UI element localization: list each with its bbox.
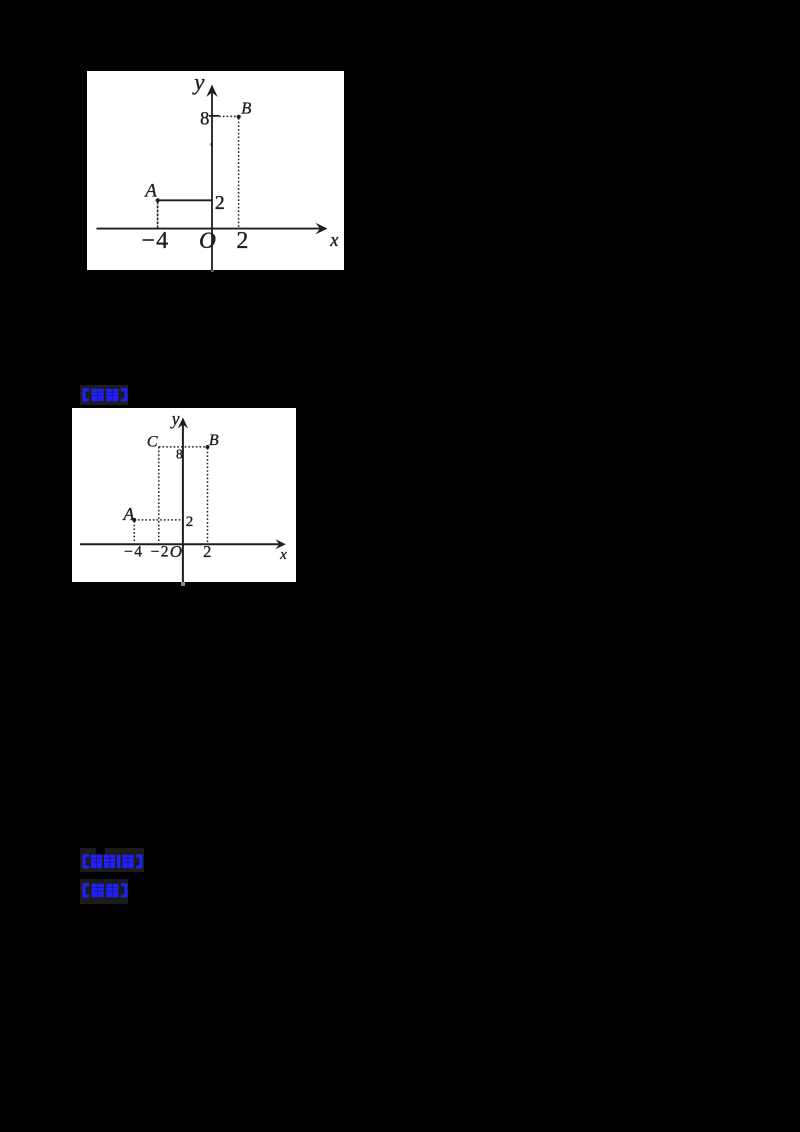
point A [156, 198, 160, 202]
svg-text:2: 2 [186, 514, 194, 530]
grey axis stub below panel 1 [211, 270, 214, 272]
blue label 2 text 【小问1详解】 [82, 854, 143, 869]
vertical dotted line A to x-axis [133, 521, 135, 543]
x-axis [80, 543, 279, 545]
vertical dotted line from B to x-axis [238, 118, 240, 228]
svg-text:8: 8 [200, 109, 209, 129]
svg-text:O: O [199, 228, 216, 254]
vertical dotted line C to x-axis [158, 447, 160, 544]
y-axis [211, 89, 213, 270]
point B2 [206, 445, 210, 449]
svg-text:A: A [122, 504, 135, 524]
horizontal line from A to y-axis [158, 199, 212, 201]
svg-text:−4: −4 [124, 544, 143, 561]
dotted segment y=8 to point B [219, 115, 238, 117]
svg-text:−2: −2 [151, 544, 170, 561]
y-axis arrowhead [178, 418, 188, 429]
svg-text:2: 2 [215, 192, 225, 214]
graph panel 1 (white figure) [87, 71, 344, 270]
svg-text:y: y [170, 409, 180, 429]
dotted line C to B at y=8 [159, 446, 208, 448]
blue label 2 [80, 848, 144, 872]
x-axis arrowhead [316, 223, 328, 235]
svg-text:x: x [279, 547, 287, 563]
point A2 [132, 518, 136, 522]
point B [237, 115, 241, 119]
blue label 3 [80, 879, 128, 904]
tick at y=8 [209, 115, 219, 117]
grey axis stub below panel 2 [181, 582, 185, 586]
svg-text:2: 2 [236, 228, 248, 254]
svg-text:y: y [192, 71, 205, 94]
horizontal dotted line A to y-axis [134, 519, 183, 521]
vertical dotted line B to x-axis [207, 448, 209, 543]
svg-text:2: 2 [203, 542, 211, 561]
svg-text:A: A [143, 180, 157, 201]
small scratch mark on y-axis [211, 144, 212, 149]
x-axis [97, 228, 321, 230]
svg-text:8: 8 [176, 447, 183, 462]
vertical line from A to x-axis [157, 202, 159, 228]
x-axis arrowhead [276, 539, 286, 549]
graph panel 2 (white figure) [72, 408, 296, 582]
blue label 3 text 【点睛】 [82, 883, 128, 898]
svg-text:x: x [329, 231, 339, 251]
svg-text:B: B [241, 99, 251, 118]
svg-text:C: C [147, 433, 158, 450]
svg-text:−4: −4 [141, 228, 169, 254]
y-axis arrowhead [206, 85, 217, 98]
blue label 1 [80, 385, 128, 405]
y-axis [182, 421, 184, 582]
blue label 1 text 【详解】 [82, 388, 128, 402]
svg-text:B: B [209, 432, 219, 449]
svg-text:O: O [170, 542, 182, 561]
